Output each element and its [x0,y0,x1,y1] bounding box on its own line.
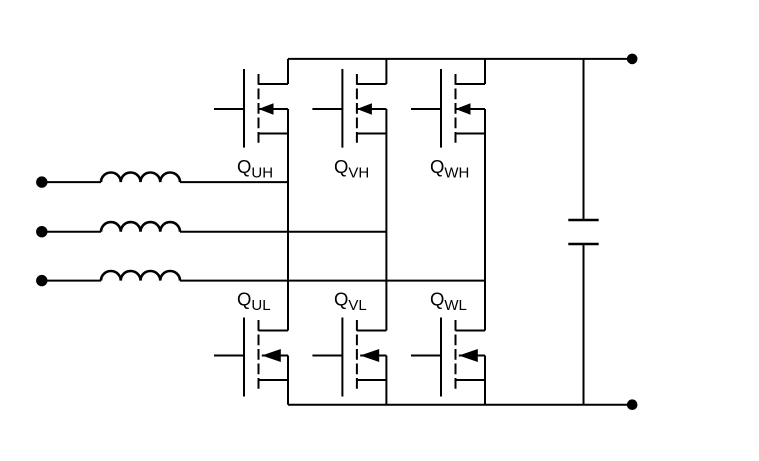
wire QVL source to DC- [385,356,387,405]
svg-text:QWL: QWL [430,289,467,315]
wire top rail (DC+) [288,58,632,60]
inductor LV [101,222,180,232]
transistor QWH [411,69,485,148]
svg-text:QUH: QUH [237,156,273,182]
terminal DC- [627,399,638,410]
transistor QUH [214,69,288,148]
wire phase W [180,280,485,282]
wire bottom rail (DC-) [288,404,632,406]
wire capacitor top branch [583,59,585,220]
transistor QVH [312,69,386,148]
wire input U [42,181,101,183]
terminal DC+ [627,54,638,65]
wire phase U [180,181,288,183]
capacitor C1 [568,220,598,244]
svg-text:QWH: QWH [430,156,469,182]
wire input W [42,280,101,282]
wire capacitor bottom branch [583,244,585,405]
wire QUH drain to DC+ [287,59,289,84]
svg-text:QUL: QUL [237,289,271,315]
wire QVH drain to DC+ [385,59,387,84]
input terminal W [36,275,47,286]
transistor QUL [214,318,288,397]
input terminal V [36,226,47,237]
wire phase V [180,231,386,233]
inductor LW [101,271,180,281]
wire phase node U (QxH source to QxL drain) [287,109,289,331]
transistor QWL [411,318,485,397]
wire phase node W (QxH source to QxL drain) [484,109,486,331]
wire QUL source to DC- [287,356,289,405]
wire input V [42,231,101,233]
wire QWH drain to DC+ [484,59,486,84]
transistor QVL [312,318,386,397]
svg-text:QVH: QVH [334,156,369,182]
wire QWL source to DC- [484,356,486,405]
wire phase node V (QxH source to QxL drain) [385,109,387,331]
inductor LU [101,173,180,183]
svg-text:QVL: QVL [334,289,367,315]
input terminal U [36,176,47,187]
